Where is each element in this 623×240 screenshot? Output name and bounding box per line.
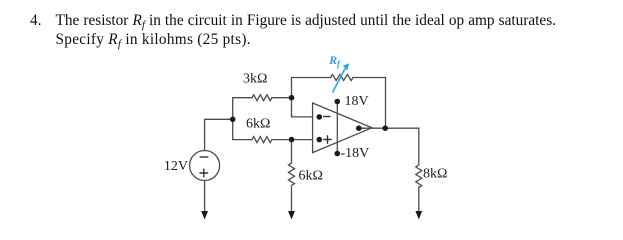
Rf wiper arrow (blue) [333, 63, 350, 92]
V1 plus sign [200, 169, 207, 176]
op-amp non-inverting input sign [324, 136, 331, 143]
wire node B down to inverting input [292, 98, 320, 117]
wire node D down to R4 [418, 128, 420, 165]
wire op-amp output to node D and 8k branch [359, 127, 419, 129]
wire R2 to node C [272, 139, 292, 141]
op-amp output terminal dot [356, 125, 362, 131]
op-amp positive supply terminal dot [335, 99, 341, 105]
ground arrow under V1 [201, 211, 208, 220]
svg-text:12V: 12V [164, 159, 188, 174]
wire node C to non-inverting input [292, 139, 320, 141]
svg-text:18V: 18V [345, 94, 369, 109]
resistor R2 6k zigzag [252, 137, 272, 143]
svg-text:6kΩ: 6kΩ [299, 169, 323, 184]
wire R4 to ground arrow [418, 187, 420, 212]
resistor R1 3k zigzag [252, 95, 272, 101]
wire node A up to 3k branch [233, 98, 252, 120]
wire Rf to right corner and down to output node [353, 78, 386, 129]
op-amp inverting input sign [324, 116, 330, 118]
node D output junction dot [382, 125, 388, 131]
wire node A down to 6k branch [233, 119, 252, 139]
node A junction dot [230, 117, 236, 123]
wire node C down to R3 [291, 140, 293, 163]
V1 minus sign [200, 156, 207, 158]
wire R3 to ground arrow [291, 187, 293, 212]
node B junction dot [289, 95, 295, 101]
op-amp non-inverting input terminal dot [317, 137, 323, 143]
svg-text:8kΩ: 8kΩ [423, 167, 447, 182]
resistor Rf zigzag (variable) [331, 75, 354, 81]
svg-text:3kΩ: 3kΩ [243, 71, 267, 86]
resistor R4 8k vertical zigzag [416, 165, 422, 188]
wire R1 to node B [272, 97, 292, 99]
wire V1 bottom to ground arrow [204, 181, 206, 212]
wire node B up to feedback loop [292, 78, 331, 98]
ground arrow under R4 [415, 211, 422, 220]
op-amp supply rail line [336, 102, 338, 154]
svg-text:6kΩ: 6kΩ [246, 117, 270, 132]
svg-text:-18V: -18V [341, 146, 370, 161]
wire V1 top to node A [205, 119, 233, 150]
op-amp negative supply terminal dot [335, 151, 341, 157]
op-amp U1 triangle [313, 103, 372, 153]
svg-text:Rf: Rf [328, 54, 341, 68]
resistor R3 6k vertical zigzag [289, 163, 295, 186]
node C junction dot [289, 137, 295, 143]
voltage source V1 12V [190, 151, 220, 181]
ground arrow under R3 [288, 211, 295, 220]
op-amp inverting input terminal dot [317, 114, 323, 120]
